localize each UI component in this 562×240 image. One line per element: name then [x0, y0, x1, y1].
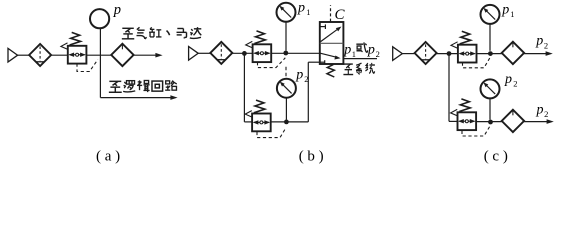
- svg-text:1: 1: [352, 49, 356, 59]
- svg-text:2: 2: [513, 79, 517, 89]
- svg-text:2: 2: [544, 109, 548, 119]
- svg-text:p: p: [501, 3, 509, 18]
- svg-text:p: p: [295, 68, 303, 83]
- svg-text:2: 2: [544, 40, 548, 50]
- svg-text:p: p: [536, 102, 544, 117]
- svg-text:p: p: [113, 2, 121, 18]
- svg-text:2: 2: [376, 49, 380, 59]
- svg-text:( a ): ( a ): [96, 148, 120, 164]
- svg-text:p: p: [343, 43, 351, 58]
- svg-text:2: 2: [304, 74, 308, 84]
- svg-text:p: p: [297, 1, 305, 16]
- svg-text:1: 1: [510, 9, 514, 19]
- svg-text:p: p: [504, 72, 512, 87]
- svg-text:C: C: [335, 7, 346, 23]
- svg-text:p: p: [535, 33, 543, 48]
- svg-text:1: 1: [306, 7, 310, 17]
- svg-text:p: p: [367, 43, 375, 58]
- svg-text:( c ): ( c ): [484, 148, 508, 164]
- svg-text:( b ): ( b ): [299, 148, 324, 164]
